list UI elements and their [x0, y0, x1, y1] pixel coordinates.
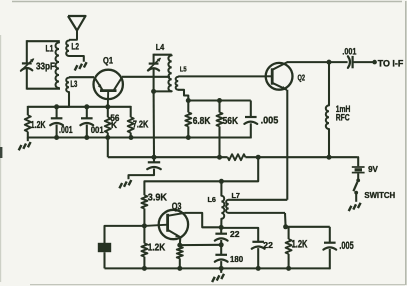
- svg-text:TO I-F: TO I-F: [378, 59, 404, 69]
- svg-text:Q3: Q3: [172, 202, 182, 213]
- svg-text:.001: .001: [342, 46, 356, 56]
- svg-text:L5: L5: [180, 65, 187, 74]
- svg-text:3.9K: 3.9K: [148, 193, 168, 204]
- svg-text:1.2K: 1.2K: [31, 120, 46, 131]
- svg-text:L3: L3: [70, 79, 77, 89]
- svg-text:.005: .005: [339, 240, 353, 252]
- svg-text:9V: 9V: [368, 164, 378, 174]
- svg-text:L4: L4: [156, 43, 165, 52]
- svg-text:22: 22: [230, 229, 240, 239]
- svg-text:Q1: Q1: [103, 56, 113, 66]
- svg-text:6.8K: 6.8K: [193, 116, 211, 127]
- svg-text:SWITCH: SWITCH: [364, 190, 395, 200]
- svg-text:.005: .005: [261, 116, 279, 127]
- svg-text:L6: L6: [208, 195, 216, 204]
- svg-text:1.2K: 1.2K: [148, 243, 166, 254]
- svg-text:RFC: RFC: [336, 112, 350, 122]
- svg-text:L2: L2: [71, 41, 79, 51]
- svg-text:L1: L1: [46, 43, 54, 53]
- svg-text:33pF: 33pF: [36, 61, 55, 72]
- svg-text:7.2K: 7.2K: [133, 120, 149, 131]
- svg-text:1.2K: 1.2K: [292, 239, 308, 251]
- svg-text:K: K: [111, 120, 118, 130]
- svg-text:L7: L7: [232, 193, 241, 200]
- svg-text:56K: 56K: [223, 116, 239, 127]
- svg-text:Q2: Q2: [298, 74, 306, 83]
- svg-text:22: 22: [263, 240, 273, 250]
- svg-text:001: 001: [91, 125, 104, 135]
- svg-text:180: 180: [230, 254, 243, 264]
- svg-text:.001: .001: [59, 125, 73, 136]
